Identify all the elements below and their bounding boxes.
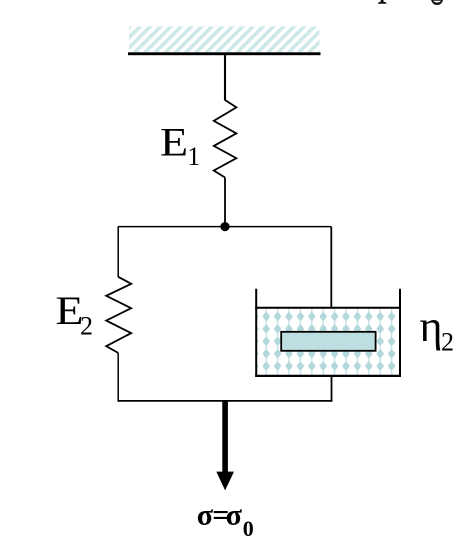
wire: bottom rail (118, 400, 332, 402)
wire: right branch piston rod (330, 227, 332, 332)
dashpot container walls (255, 289, 401, 377)
force arrow head (216, 472, 234, 491)
label sigma = sigma0 (197, 498, 254, 541)
spring E1 (214, 100, 237, 178)
wire: top rail (118, 226, 331, 228)
spring E2 (106, 277, 131, 353)
node junction dot (220, 222, 229, 231)
svg-text:1: 1 (187, 142, 200, 171)
dashpot fluid surface line (255, 307, 401, 309)
fixed support line (128, 52, 321, 55)
label E1 (160, 121, 200, 171)
label E2 (55, 290, 93, 341)
fixed support hatched block (129, 27, 320, 53)
dashpot piston (281, 332, 375, 351)
wire: spring E1 to node (224, 178, 226, 227)
svg-text:σ: σ (197, 498, 214, 531)
svg-text:σ: σ (226, 498, 243, 531)
svg-text:2: 2 (441, 327, 454, 356)
svg-text:E: E (160, 121, 188, 165)
force arrow shaft (222, 401, 228, 473)
cut-off text fragment (curved letter bottom, top right) (432, 0, 442, 4)
svg-text:0: 0 (243, 516, 254, 541)
wire: container bottom to bottom rail (331, 377, 333, 402)
svg-text:2: 2 (80, 312, 93, 341)
wire: ceiling to spring E1 (224, 55, 226, 101)
svg-text:η: η (420, 302, 443, 351)
cut-off text fragment (letter stem, top right) (378, 0, 387, 4)
wire: spring E2 to bottom rail (117, 353, 119, 402)
wire: left branch down to spring E2 (117, 227, 119, 277)
label eta2 (420, 302, 455, 356)
dashpot fluid (257, 309, 399, 376)
